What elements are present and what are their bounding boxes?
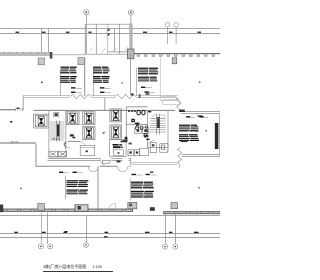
- canopy inner divider 1: [95, 24, 97, 54]
- core top wall: [34, 109, 175, 111]
- leader line bottom-mid column: [129, 179, 131, 201]
- bottom exterior wall band left: [0, 209, 133, 211]
- elevator D2: [110, 125, 122, 139]
- right room dark wall fill: [215, 123, 219, 149]
- HD labels bottom-left: [59, 172, 63, 173]
- interior wall vertical left of canopy extension: [84, 58, 86, 96]
- wall right of D shafts: [104, 98, 106, 110]
- bottom dimension line 1: [0, 233, 220, 235]
- right wing wall: [181, 112, 220, 114]
- stair2 center dark bar: [157, 117, 159, 128]
- stair2 lower door arcs: [148, 140, 155, 147]
- stair1 center dark bar: [57, 125, 59, 137]
- W labels bottom-mid: [132, 174, 136, 175]
- svg-text:1栋(厂房)--层电位平面图: 1栋(厂房)--层电位平面图: [43, 263, 86, 269]
- canopy landing line: [108, 51, 130, 53]
- column at canopy right: [127, 49, 134, 59]
- counter outline right wing: [160, 97, 180, 105]
- annotation block upper-mid B: [93, 76, 101, 77]
- double door in lobby wall: [11, 141, 17, 144]
- svg-text:1:100: 1:100: [93, 265, 103, 269]
- small mark right of stair1 top: [72, 137, 75, 139]
- annotation block upper-right B: [138, 77, 149, 78]
- HD labels upper-left: [71, 87, 75, 88]
- annotation block upper-left A: [61, 67, 70, 68]
- grid vertical x41: [41, 29, 43, 53]
- column below band: [38, 58, 44, 65]
- stair2 side marks: [145, 126, 147, 128]
- door dark mark right wing: [179, 110, 185, 112]
- dimension line A (top): [0, 28, 220, 30]
- grid stem x47.3 bottom: [47, 213, 49, 244]
- wall segment to canopy: [51, 54, 85, 56]
- corridor arrow mark: [102, 132, 105, 134]
- interior wall x98 vertical: [97, 166, 99, 208]
- squiggle symbol right of stair1: [64, 142, 66, 148]
- column square right band: [172, 58, 177, 64]
- annotation block upper-left B: [61, 76, 70, 77]
- lower toilet wc ellipses: [136, 126, 139, 130]
- equipment box right gap: [171, 203, 177, 209]
- grid stem x86 bottom: [86, 216, 88, 243]
- annotation block bottom-mid B: [131, 191, 144, 192]
- stair1 top box: [54, 112, 59, 116]
- canopy right wall: [130, 24, 132, 54]
- grid bubble 4 top-right: [174, 23, 178, 44]
- corridor south wall: [36, 165, 131, 167]
- box: [140, 148, 149, 155]
- equipment box on band 1: [38, 204, 45, 211]
- wall x36 vertical: [35, 144, 37, 167]
- wing tiny side texts: [195, 126, 198, 137]
- grid bubble bottom x50: [48, 244, 53, 249]
- right edge line: [218, 114, 220, 156]
- grid bubble bottom x175: [173, 244, 178, 249]
- door arc core bottom left: [64, 142, 70, 148]
- small box on south wall: [103, 160, 110, 163]
- door/text marks below toilets: [123, 140, 128, 142]
- tiny floor dots: [41, 82, 43, 83]
- dim arrows center: [106, 28, 109, 30]
- grid vertical x114: [114, 29, 116, 52]
- toilet wc ellipse 2: [142, 110, 145, 115]
- stair 2: [148, 110, 168, 147]
- Dxx hook text: [198, 115, 203, 117]
- grid bubble 1 top: [84, 10, 89, 24]
- stair1 rails: [57, 121, 60, 142]
- pilaster left end: [0, 205, 3, 213]
- canopy door swing marks: [90, 46, 128, 52]
- wall end cap: [50, 52, 53, 59]
- counter box: [80, 146, 95, 156]
- HD labels upper-mid: [100, 87, 104, 88]
- text above toilet room: [121, 141, 127, 143]
- toilet wc ellipse 1: [137, 110, 140, 115]
- toilet stall fronts: [128, 110, 136, 112]
- left entry wall: [0, 109, 16, 111]
- HD labels upper-right: [141, 87, 145, 88]
- grid bubble bottom x86: [84, 243, 89, 248]
- lobby west wall: [0, 142, 36, 144]
- leader line upper-mid column: [93, 67, 95, 96]
- annotation block bottom-left A: [66, 180, 78, 181]
- grid stem x175 bottom: [175, 214, 177, 244]
- leader line upper-left column: [59, 71, 61, 96]
- stair2 landing outline: [153, 115, 165, 118]
- grid bubble 3 top-right: [165, 23, 169, 44]
- grid stem x165 bottom: [165, 214, 167, 244]
- corridor front wall with zigzag: [23, 94, 177, 98]
- WC stall boxes bottom-left: [49, 151, 67, 157]
- right zigzag wall vertical (upper): [177, 98, 181, 112]
- stair1 landing circles: [53, 138, 55, 140]
- lobby south wall piece: [68, 140, 81, 142]
- toilet lower room fixtures: [135, 128, 149, 134]
- dark door leaf in gap: [150, 207, 155, 211]
- dimension line B (top): [0, 33, 220, 35]
- core bottom rooms south wall: [48, 159, 131, 161]
- wall between B and C: [79, 112, 83, 125]
- canopy inner divider 3: [119, 24, 121, 54]
- door cluster on band: [75, 205, 88, 211]
- ground line: [0, 215, 220, 217]
- toilet with door: [160, 144, 168, 153]
- wall below rooms mid-right: [131, 158, 178, 165]
- toilet room text cluster: [135, 123, 140, 124]
- annotation block upper-mid A: [93, 67, 101, 68]
- annotation block upper-right A: [138, 68, 148, 69]
- grid bubble bottom x41: [38, 244, 43, 249]
- stair1 treads: [50, 122, 65, 140]
- title underline: [43, 271, 113, 273]
- door arcs corridor: [88, 167, 128, 172]
- toilet west wall foot: [125, 137, 128, 141]
- wall up from entry: [22, 96, 24, 111]
- stair2 upper label: [148, 111, 151, 113]
- right mullioned wall band: [134, 53, 220, 55]
- annotation block wing A: [179, 125, 190, 126]
- stair 1: [49, 110, 66, 157]
- canopy/entry bay outline: [85, 24, 131, 54]
- band mullion squares: [4, 209, 125, 211]
- lobby label: [70, 134, 74, 136]
- elevator B: [66, 112, 79, 125]
- bubble numerals: [40, 244, 176, 247]
- HD labels wing: [186, 116, 190, 117]
- elevator D1: [110, 109, 122, 122]
- equipment box POA: [128, 202, 137, 208]
- annotation block bottom-mid A: [131, 182, 143, 183]
- door swing bottom gap: [108, 203, 116, 211]
- pair boxes: [128, 150, 140, 156]
- elevator C1: [83, 112, 95, 125]
- right wing boundary wall: [160, 57, 162, 96]
- leader line bottom-left column: [64, 176, 66, 199]
- small label left of stair2: [146, 93, 150, 94]
- door frame marks center: [131, 93, 133, 95]
- text above lower zigzag: [181, 141, 188, 143]
- door arc south wall: [100, 158, 109, 167]
- toilet block walls: [126, 107, 147, 143]
- tall box: [150, 143, 156, 153]
- right zigzag wall vertical (lower): [178, 148, 182, 168]
- grid vertical x48: [48, 29, 50, 53]
- canopy inner divider 2: [107, 24, 109, 54]
- leader line upper-right column: [136, 68, 138, 96]
- left exterior wall band (hatched): [0, 53, 50, 56]
- dim tick labels bottom: [14, 231, 198, 238]
- right room bottom wall: [182, 155, 220, 157]
- elevator A: [34, 114, 49, 128]
- elevator C2: [83, 126, 95, 139]
- grid stem x41.5 bottom: [41, 213, 43, 244]
- utility room below shaft: [110, 140, 127, 157]
- bottom dimension line 2: [0, 237, 220, 239]
- column at canopy left: [78, 58, 84, 65]
- bottom exterior wall band right: [164, 212, 220, 214]
- squat fixture dark square: [131, 119, 135, 122]
- annotation block bottom-left B: [66, 190, 78, 191]
- annotation block wing B: [179, 134, 188, 135]
- tiny text left of elevator A: [10, 121, 12, 123]
- canopy left wall: [85, 24, 87, 54]
- dim tick labels top: [16, 32, 202, 33]
- door in left wall: [16, 108, 23, 111]
- interior wall vertical right of canopy extension: [130, 54, 132, 95]
- grid bubble bottom x165: [163, 244, 168, 249]
- grid bubble 2 top: [128, 10, 133, 24]
